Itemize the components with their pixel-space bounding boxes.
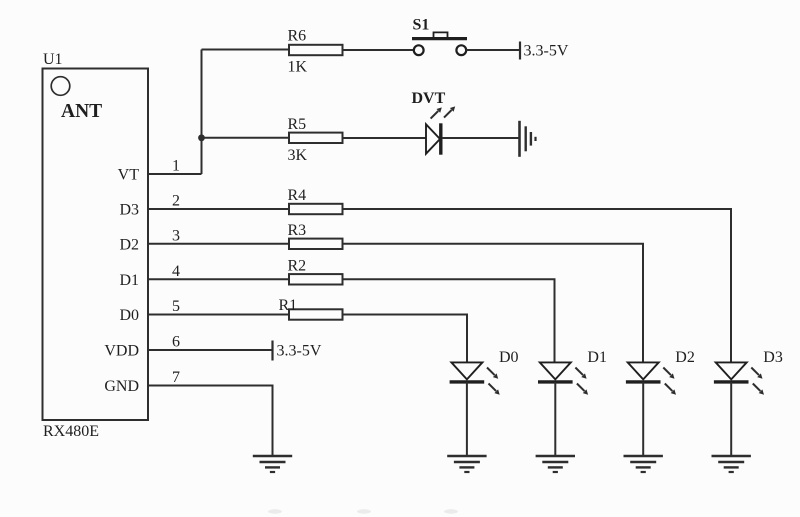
ANT label	[61, 101, 102, 122]
ground D2	[624, 456, 663, 472]
LED D3	[714, 349, 783, 395]
svg-text:R2: R2	[288, 257, 307, 274]
svg-text:VDD: VDD	[104, 343, 139, 360]
wire pin7 GND	[148, 386, 273, 457]
wire D0 cathode to ground	[466, 382, 468, 456]
svg-text:5: 5	[172, 298, 180, 315]
pin number 7	[172, 369, 180, 386]
pin number 3	[172, 227, 180, 244]
pin-1 indicator circle	[51, 77, 70, 96]
resistor R4	[288, 187, 343, 214]
pin number 1	[172, 158, 180, 175]
svg-text:S1: S1	[413, 17, 430, 34]
wire R4 to D3 column	[343, 209, 732, 362]
LED D1	[538, 349, 607, 395]
svg-text:1: 1	[172, 158, 180, 175]
svg-text:D1: D1	[119, 272, 139, 289]
LED D2	[626, 349, 695, 395]
wire R3 to D2 column	[343, 244, 644, 363]
svg-text:4: 4	[172, 263, 180, 280]
earth ground (rotated)	[520, 121, 536, 157]
RX480E part number	[43, 423, 99, 440]
svg-text:RX480E: RX480E	[43, 423, 99, 440]
svg-text:ANT: ANT	[61, 101, 102, 122]
svg-text:1K: 1K	[288, 59, 308, 76]
wire top row to R6	[202, 49, 290, 51]
wire pin6 VDD to supply	[148, 349, 273, 351]
wire R1 to D0 column	[343, 315, 468, 363]
pin number 2	[172, 193, 180, 210]
wire S1 to supply	[466, 49, 520, 51]
LED DVT	[412, 90, 456, 155]
wire VT vertical riser	[201, 50, 203, 175]
node VT junction dot	[198, 134, 205, 141]
U1 reference label	[43, 51, 63, 68]
svg-text:7: 7	[172, 369, 180, 386]
wire pin2 D3 to R4	[148, 208, 289, 210]
svg-text:R4: R4	[288, 187, 307, 204]
resistor R2	[288, 257, 343, 284]
pin number 5	[172, 298, 180, 315]
svg-text:R3: R3	[288, 222, 307, 239]
ground D3	[712, 456, 751, 472]
IC U1 body	[43, 69, 149, 421]
svg-text:3.3-5V: 3.3-5V	[524, 43, 569, 60]
resistor R6	[288, 28, 343, 76]
wire DVT to earth	[442, 137, 520, 139]
svg-text:R6: R6	[288, 28, 307, 45]
wire pin5 D0 to R1	[148, 314, 289, 316]
pin number 4	[172, 263, 180, 280]
pin number 6	[172, 334, 180, 351]
svg-text:D2: D2	[119, 236, 139, 253]
wire R6 to S1	[343, 49, 414, 51]
wire pin4 D1 to R2	[148, 278, 289, 280]
resistor R3	[288, 222, 343, 249]
svg-text:R1: R1	[279, 297, 298, 314]
power terminal 3.3-5V (VDD)	[273, 341, 322, 361]
switch S1	[412, 17, 467, 56]
svg-text:D3: D3	[119, 202, 139, 219]
wire D3 cathode to ground	[730, 382, 732, 456]
svg-text:3K: 3K	[288, 147, 308, 164]
svg-text:GND: GND	[104, 378, 139, 395]
svg-text:U1: U1	[43, 51, 63, 68]
svg-text:6: 6	[172, 334, 180, 351]
svg-text:D1: D1	[587, 349, 607, 366]
svg-text:R5: R5	[288, 116, 307, 133]
svg-text:3: 3	[172, 227, 180, 244]
pin label D3	[119, 202, 139, 219]
ground GND pin	[253, 456, 292, 472]
faint caption remnants	[268, 509, 458, 513]
resistor R5	[288, 116, 343, 164]
ground D0	[447, 456, 486, 472]
pin label VDD	[104, 343, 139, 360]
ground D1	[536, 456, 575, 472]
wire R5 row from junction	[202, 137, 290, 139]
resistor R1	[279, 297, 343, 320]
wire D1 cathode to ground	[554, 382, 556, 456]
svg-text:D0: D0	[119, 307, 139, 324]
svg-text:3.3-5V: 3.3-5V	[277, 343, 322, 360]
wire R2 to D1 column	[343, 279, 555, 362]
svg-text:D2: D2	[675, 349, 695, 366]
power terminal 3.3-5V (top)	[520, 42, 569, 60]
svg-text:D3: D3	[763, 349, 783, 366]
LED D0	[450, 349, 519, 395]
svg-text:D0: D0	[499, 349, 519, 366]
wire pin1 VT horizontal	[148, 173, 202, 175]
pin label D2	[119, 236, 139, 253]
svg-text:VT: VT	[118, 167, 140, 184]
pin label D0	[119, 307, 139, 324]
svg-text:2: 2	[172, 193, 180, 210]
wire pin3 D2 to R3	[148, 243, 289, 245]
pin label D1	[119, 272, 139, 289]
pin label VT	[118, 167, 140, 184]
pin label GND	[104, 378, 139, 395]
wire D2 cathode to ground	[642, 382, 644, 456]
svg-text:DVT: DVT	[412, 90, 446, 107]
wire R5 to DVT	[343, 137, 427, 139]
